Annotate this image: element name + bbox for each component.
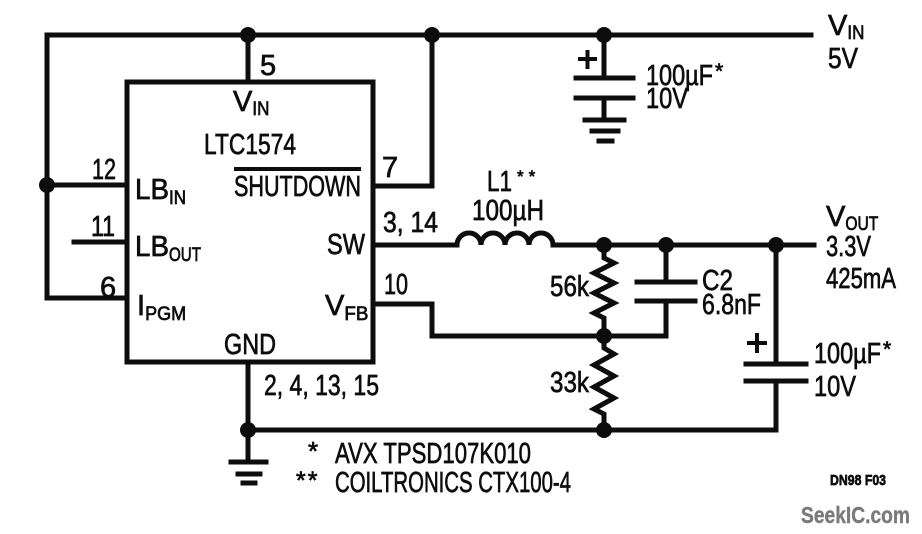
svg-text:10: 10 (384, 269, 408, 301)
wire pin 6 IPGM (47, 296, 127, 301)
svg-text:5: 5 (260, 50, 276, 82)
resistor 33k (594, 336, 614, 430)
wire VOUT rail (553, 243, 814, 248)
svg-text:SW: SW (327, 229, 366, 261)
capacitor COUT 100uF (774, 245, 779, 361)
op-amp U1 LTC1574 box (127, 82, 373, 362)
svg-text:SeekIC.com: SeekIC.com (801, 502, 910, 528)
node CIN top rail (596, 27, 612, 43)
node GND junction (240, 422, 256, 438)
svg-text:2, 4, 13, 15: 2, 4, 13, 15 (264, 370, 379, 402)
svg-text:3, 14: 3, 14 (383, 207, 438, 239)
node pin5 top rail (240, 27, 256, 43)
node COUT VOUT rail (768, 237, 784, 253)
svg-text:DN98 F03: DN98 F03 (830, 472, 886, 489)
ground main (246, 430, 251, 459)
svg-text:COILTRONICS CTX100-4: COILTRONICS CTX100-4 (335, 467, 571, 499)
svg-text:LTC1574: LTC1574 (204, 129, 296, 161)
wire SW pin to inductor (373, 243, 457, 248)
svg-text:12: 12 (92, 154, 116, 186)
resistor 56k (594, 245, 614, 336)
svg-text:GND: GND (224, 329, 276, 361)
svg-text:56k: 56k (550, 271, 589, 303)
wire pin 12 LBIN (47, 183, 127, 188)
svg-text:11: 11 (91, 211, 115, 243)
svg-text:10V: 10V (814, 371, 857, 403)
wire pin 7 SHUTDOWN to top rail (373, 35, 432, 186)
capacitor CIN 100uF (602, 35, 607, 76)
wire left rail (45, 35, 50, 298)
svg-text:425mA: 425mA (826, 263, 896, 295)
ground CIN (585, 118, 624, 123)
wire VFB pin 10 to feedback node (373, 304, 666, 336)
node LBIN left rail (39, 177, 55, 193)
node feedback (596, 328, 612, 344)
svg-text:**: ** (296, 467, 319, 495)
wire VIN top rail (47, 33, 811, 38)
svg-text:5V: 5V (828, 43, 859, 75)
wire GND pin down (246, 362, 251, 430)
shutdown overline (234, 167, 361, 171)
svg-text:7: 7 (382, 152, 398, 184)
svg-text:6.8nF: 6.8nF (702, 289, 761, 321)
inductor L1 100uH (457, 233, 553, 245)
svg-text:33k: 33k (550, 367, 589, 399)
node 33k ground (596, 422, 612, 438)
svg-text:*: * (308, 436, 318, 466)
wire pin 11 LBOUT stub (74, 240, 127, 245)
wire pin 5 to VIN (246, 35, 251, 82)
svg-text:10V: 10V (646, 83, 689, 115)
svg-text:3.3V: 3.3V (826, 231, 871, 263)
wire ground rail (248, 428, 776, 433)
svg-text:SHUTDOWN: SHUTDOWN (234, 171, 361, 203)
node shutdown top rail (424, 27, 440, 43)
svg-text:100µF*: 100µF* (814, 338, 891, 370)
svg-text:AVX TPSD107K010: AVX TPSD107K010 (335, 438, 531, 470)
capacitor C2 (664, 245, 669, 280)
node C2 VOUT rail (658, 237, 674, 253)
svg-text:6: 6 (100, 272, 116, 304)
svg-text:100µH: 100µH (472, 195, 544, 227)
node 56k VOUT rail (596, 237, 612, 253)
